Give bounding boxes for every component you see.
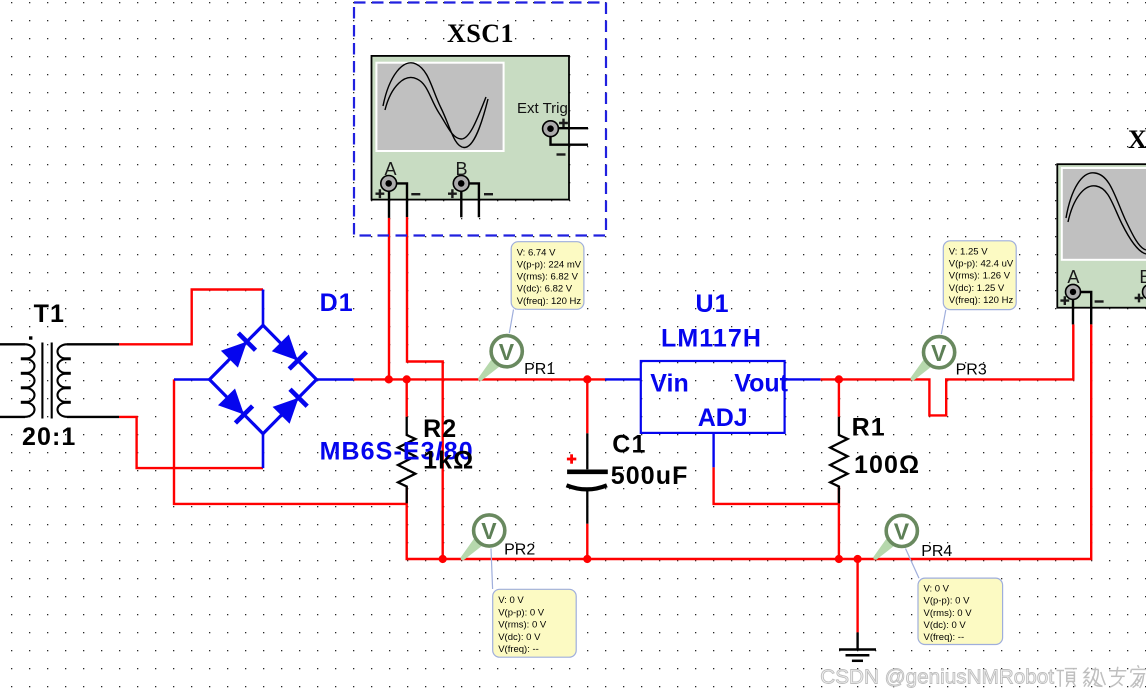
svg-text:V: 0 V: V: 0 V (498, 595, 524, 606)
svg-text:V(rms): 0 V: V(rms): 0 V (498, 620, 547, 631)
svg-text:V: 0 V: V: 0 V (924, 584, 950, 595)
svg-text:A: A (385, 159, 397, 179)
svg-text:V(p-p): 0 V: V(p-p): 0 V (924, 596, 971, 607)
svg-text:1kΩ: 1kΩ (423, 447, 474, 475)
svg-text:B: B (456, 159, 468, 179)
svg-text:R2: R2 (423, 415, 457, 443)
svg-text:V: V (894, 519, 910, 545)
svg-text:V(freq): 120 Hz: V(freq): 120 Hz (517, 296, 582, 307)
svg-text:D1: D1 (320, 289, 354, 317)
svg-text:V: 1.25 V: V: 1.25 V (949, 247, 988, 258)
svg-text:PR3: PR3 (956, 362, 987, 379)
svg-text:B: B (1139, 267, 1146, 287)
svg-text:XSC1: XSC1 (447, 19, 514, 48)
svg-text:500uF: 500uF (611, 462, 689, 490)
svg-text:V(rms): 0 V: V(rms): 0 V (924, 608, 973, 619)
svg-text:V(dc): 6.82 V: V(dc): 6.82 V (517, 284, 573, 295)
svg-text:V: V (481, 518, 497, 544)
svg-text:V(dc): 0 V: V(dc): 0 V (498, 632, 541, 643)
svg-text:V(rms): 6.82 V: V(rms): 6.82 V (517, 272, 579, 283)
svg-text:V(p-p): 0 V: V(p-p): 0 V (498, 607, 545, 618)
svg-text:20:1: 20:1 (22, 423, 76, 451)
svg-text:R1: R1 (852, 414, 886, 442)
svg-text:Ext Trig: Ext Trig (517, 100, 568, 117)
svg-text:PR4: PR4 (921, 543, 952, 560)
svg-text:V(p-p): 42.4 uV: V(p-p): 42.4 uV (949, 259, 1014, 270)
svg-text:V(dc): 1.25 V: V(dc): 1.25 V (949, 283, 1005, 294)
svg-text:ADJ: ADJ (698, 404, 748, 432)
svg-text:XSC2: XSC2 (1128, 125, 1146, 154)
svg-text:V(freq): --: V(freq): -- (498, 644, 539, 655)
svg-text:LM117H: LM117H (661, 325, 762, 353)
svg-text:V(freq): 120 Hz: V(freq): 120 Hz (949, 295, 1014, 306)
svg-text:V: V (499, 339, 515, 365)
svg-text:V(freq): --: V(freq): -- (924, 632, 965, 643)
svg-text:PR2: PR2 (504, 542, 535, 559)
svg-text:A: A (1067, 267, 1079, 287)
svg-text:V: 6.74 V: V: 6.74 V (517, 247, 556, 258)
svg-text:CSDN @geniusNMRobot: CSDN @geniusNMRobot (820, 665, 1054, 688)
svg-text:V(dc): 0 V: V(dc): 0 V (924, 620, 967, 631)
svg-text:V: V (931, 340, 947, 366)
svg-text:Vout: Vout (734, 370, 788, 398)
svg-text:T1: T1 (34, 300, 65, 328)
svg-text:V(p-p): 224 mV: V(p-p): 224 mV (517, 260, 582, 271)
svg-text:C1: C1 (612, 431, 646, 459)
svg-text:U1: U1 (696, 290, 730, 318)
svg-text:V(rms): 1.26 V: V(rms): 1.26 V (949, 271, 1011, 282)
svg-text:Vin: Vin (650, 370, 688, 398)
svg-text:100Ω: 100Ω (854, 451, 920, 479)
svg-text:PR1: PR1 (524, 361, 555, 378)
